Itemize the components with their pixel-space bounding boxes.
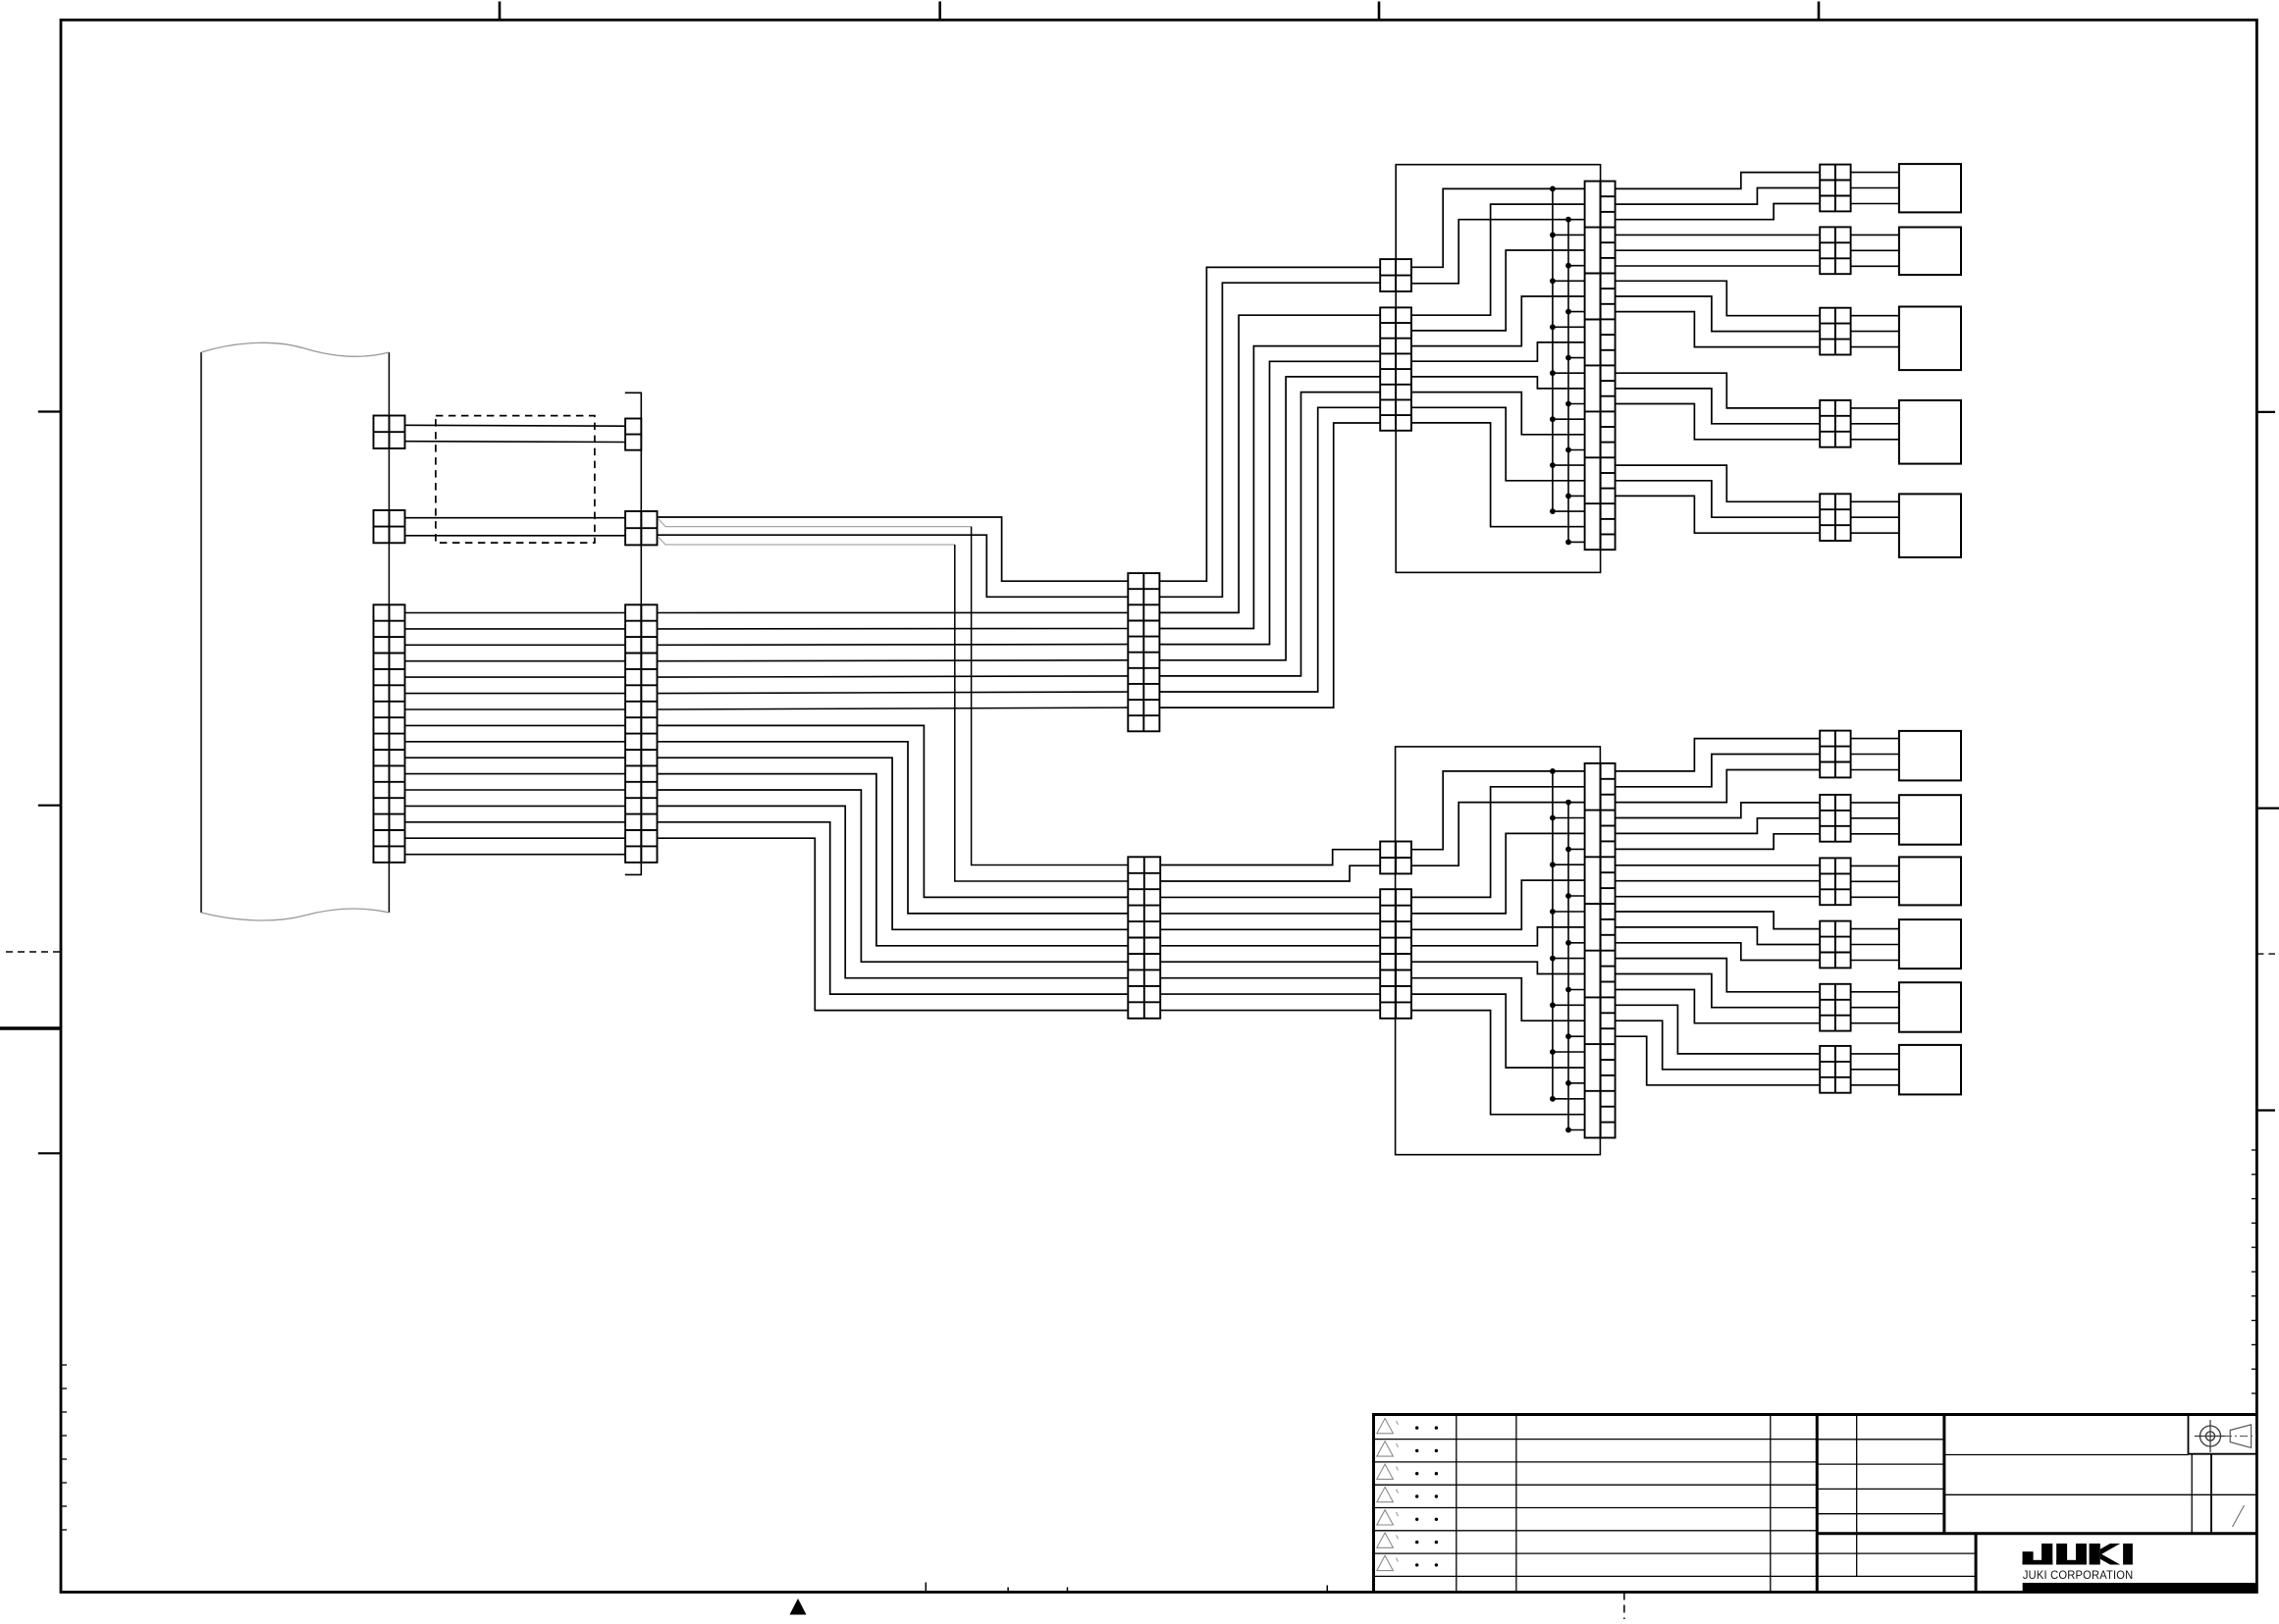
upper harness bus V2 junction box7 (1565, 494, 1571, 499)
wire lower stack row5 to block 8pin row3 (1160, 928, 1380, 930)
title row line y1482 (1944, 1454, 2189, 1456)
title block bottom black bar (2023, 1583, 2257, 1593)
wire pair-B pin2 (left segment) (405, 535, 626, 537)
wire pair-B pin2 to upper stack row2 (658, 535, 1129, 597)
upper harness bus V1 junction box8 (1550, 508, 1556, 514)
lower harness wire strip to relay R2 pin3 (1616, 834, 1821, 850)
lower harness terminal box B5 (1899, 982, 1961, 1031)
revision triangle row2 (1377, 1441, 1394, 1456)
upper harness bus V1 junction box6 (1550, 416, 1556, 422)
revision date dots row6 (1415, 1541, 1418, 1544)
title block left rule (1372, 1415, 1375, 1593)
upper harness bus V2 junction box5 (1565, 401, 1571, 407)
upper harness wire strip to relay R5 pin3 (1616, 496, 1821, 533)
lower harness terminal box B2 (1899, 795, 1961, 845)
upper harness wire 8pin row4 to box4 middle pin (1411, 342, 1585, 361)
lower harness bus V1 junction box3 (1550, 862, 1556, 867)
revision triangle row1 (1377, 1419, 1394, 1434)
left border ruler ticks (61, 1364, 67, 1366)
wire lower stack row10 to block 8pin row8 (1160, 1010, 1380, 1012)
wire bundle-6 J1 to J2 (405, 693, 626, 695)
wire bundle-15 staircase to lower stack (658, 838, 1129, 1010)
projection symbol cell left edge (2188, 1415, 2190, 1454)
lower harness wire 8pin row6 to box6 middle pin (1411, 978, 1585, 1021)
lower harness wire 8pin row3 to box3 middle pin (1411, 880, 1585, 929)
upper harness wire relay R5 pin3 to terminal box (1851, 532, 1899, 534)
revision date dots row5 (1415, 1518, 1418, 1521)
revision triangle row5 (1377, 1510, 1394, 1525)
lower harness wire strip to relay R5 pin3 (1616, 990, 1821, 1023)
upper harness terminal box B3 (1899, 307, 1961, 371)
upper harness wire 8pin row3 to box3 middle pin (1411, 296, 1585, 346)
upper harness wire relay R2 pin3 to terminal box (1851, 265, 1899, 267)
lower harness bus V2 junction box7 (1565, 1080, 1571, 1086)
upper harness wire relay R3 pin2 to terminal box (1851, 331, 1899, 333)
wire bundle-9 staircase to lower stack (658, 742, 1129, 914)
lower harness wire relay R6 pin1 to terminal box (1851, 1053, 1899, 1055)
lower harness relay connector R1 (1820, 731, 1850, 778)
upper harness bus V2 junction box1 (1565, 217, 1571, 223)
bottom border small tick x1027 (1007, 1588, 1009, 1593)
lower harness relay connector R5 (1820, 984, 1850, 1031)
title block horizontal thick rule (1817, 1532, 2256, 1535)
revision triangle row4 (1377, 1487, 1394, 1501)
lower harness wire strip to relay R1 pin2 (1616, 755, 1821, 787)
title middle section row lines (1817, 1439, 1944, 1441)
upper harness wire strip to relay R1 pin3 (1616, 204, 1821, 220)
wire lower stack row3 to block 8pin row1 (1160, 896, 1380, 898)
upper harness wire relay R2 pin2 to terminal box (1851, 249, 1899, 251)
connector J2 pin pair A (single column) (625, 419, 641, 450)
revision tick row1 (1397, 1421, 1399, 1425)
lower harness wire 8pin row7 to box7 middle pin (1411, 994, 1585, 1068)
right border ruler ticks (2252, 1149, 2257, 1151)
revision date dots row2 (1415, 1449, 1418, 1452)
wire pair-A pin1 (405, 424, 626, 427)
upper harness relay connector R5 (1820, 494, 1850, 541)
wire bundle-5 J2 to upper stack (658, 676, 1129, 677)
revision date dots row3 (1415, 1472, 1418, 1475)
upper harness wire strip to relay R2 pin1 (1616, 234, 1821, 236)
upper harness bus V2 junction box4 (1565, 355, 1571, 361)
lower harness wire 8pin row1 to box1 middle pin (1411, 787, 1585, 898)
lower harness wire relay R3 pin1 to terminal box (1851, 864, 1899, 866)
wire upper stack row1 riser to block input (1159, 267, 1380, 581)
upper harness wire relay R4 pin1 to terminal box (1851, 407, 1899, 409)
upper harness wire strip to relay R4 pin3 (1616, 404, 1821, 440)
lower harness relay connector R3 (1820, 858, 1850, 905)
bottom border small tick x943 (925, 1583, 927, 1593)
lower harness input pin pair connector (1380, 842, 1411, 874)
wire bundle-9 J1 to J2 (405, 741, 626, 743)
bottom border small tick x1087 (1067, 1588, 1069, 1593)
lower harness bus V2 junction box5 (1565, 987, 1571, 993)
upper harness wire strip to relay R2 pin2 (1616, 249, 1821, 251)
upper harness wire relay R3 pin3 to terminal box (1851, 346, 1899, 348)
wire bundle-14 J1 to J2 (405, 821, 626, 823)
title cell vertical 2233 (2191, 1455, 2193, 1534)
upper harness terminal box B1 (1899, 164, 1961, 212)
wire bundle-14 staircase to lower stack (658, 822, 1129, 994)
left PCB block wavy bottom break line (201, 909, 389, 920)
connector J1 main 16-pin (left column) (374, 604, 405, 863)
wire lower stack row9 to block 8pin row7 (1160, 993, 1380, 995)
upper harness wire 8pin row7 to box7 middle pin (1411, 407, 1585, 481)
upper harness wire strip to relay R5 pin1 (1616, 465, 1821, 501)
upper harness unit outline (1396, 165, 1600, 573)
revision table column line 3 (1770, 1415, 1772, 1593)
lower harness relay connector R6 (1820, 1046, 1850, 1093)
upper harness bus V1 junction box3 (1550, 278, 1556, 284)
right border mark y420 (2256, 411, 2275, 413)
upper harness wire relay R1 pin3 to terminal box (1851, 203, 1899, 205)
upper harness wire 8pin row1 to box1 middle pin (1411, 204, 1585, 315)
lower harness wire relay R3 pin3 to terminal box (1851, 896, 1899, 898)
lower harness bus V2 junction box8 (1565, 1127, 1571, 1133)
bottom border dashed mark (1623, 1593, 1625, 1620)
wire pair-B pin1 (left segment) (405, 517, 626, 519)
lower harness output strip left column (8 gang boxes) (1585, 763, 1601, 1138)
lower harness wire strip to relay R6 pin2 (1616, 1021, 1821, 1070)
upper harness bus V2 junction box6 (1565, 447, 1571, 453)
upper harness bus V2 (1567, 220, 1569, 543)
left border centre mark (38, 805, 61, 807)
title middle section divider (1856, 1415, 1858, 1577)
lower harness bus V2 junction box4 (1565, 940, 1571, 946)
projection symbol axis line (2224, 1436, 2256, 1438)
upper harness wire strip to relay R4 pin2 (1616, 389, 1821, 424)
lower harness bus V1 junction box2 (1550, 815, 1556, 821)
wire bundle-8 staircase to lower stack (658, 725, 1129, 897)
lower harness output strip right column (24 pins) (1601, 763, 1616, 1138)
wire bundle-8 J1 to J2 (405, 724, 626, 726)
upper harness relay connector R3 (1820, 308, 1850, 355)
upper harness wire relay R2 pin1 to terminal box (1851, 234, 1899, 236)
lower harness bus V2 junction box1 (1565, 800, 1571, 806)
wire bundle-4 J1 to J2 (405, 660, 626, 662)
upper harness wire 8pin row8 to box8 middle pin (1411, 423, 1585, 527)
upper harness wire relay R3 pin1 to terminal box (1851, 315, 1899, 317)
lower harness wire relay R5 pin1 to terminal box (1851, 991, 1899, 993)
wire upper stack row4 riser to block input (1159, 346, 1380, 629)
revision table column line 2 (1515, 1415, 1517, 1593)
lower harness wire strip to relay R3 pin3 (1616, 896, 1821, 898)
revision tick row3 (1397, 1466, 1399, 1470)
upper harness wire relay R5 pin2 to terminal box (1851, 516, 1899, 518)
upper harness bus V1 junction box5 (1550, 370, 1556, 376)
lower harness bus V1 junction box7 (1550, 1049, 1556, 1055)
upper harness input 8-pin connector (1380, 307, 1411, 430)
lower harness bus V1 junction box1 (1550, 768, 1556, 774)
sheet slash mark (2233, 1505, 2245, 1527)
right border mark y1131 (2256, 1109, 2275, 1111)
lower harness wire relay R5 pin2 to terminal box (1851, 1007, 1899, 1009)
upper harness wire strip to relay R1 pin2 (1616, 188, 1821, 205)
wire bundle-11 J1 to J2 (405, 773, 626, 775)
lower harness wire relay R2 pin1 to terminal box (1851, 802, 1899, 804)
lower harness wire relay R6 pin3 to terminal box (1851, 1084, 1899, 1086)
upper harness wire relay R1 pin1 to terminal box (1851, 172, 1899, 174)
lower harness wire strip to relay R5 pin2 (1616, 974, 1821, 1008)
wire bundle-5 J1 to J2 (405, 676, 626, 678)
lower harness bus V2 junction box6 (1565, 1033, 1571, 1039)
wire upper stack row2 riser to block input (1159, 283, 1380, 597)
lower harness relay connector R2 (1820, 795, 1850, 842)
wire bundle-16 J1 to J2 (405, 854, 626, 856)
wire bundle-4 J2 to upper stack (658, 659, 1129, 662)
revision table row lines (1374, 1439, 1818, 1441)
upper harness wire strip to relay R2 pin3 (1616, 265, 1821, 267)
lower harness relay connector R4 (1820, 921, 1850, 969)
wire bundle-1 J1 to J2 (405, 612, 626, 614)
upper harness wire relay R4 pin2 to terminal box (1851, 423, 1899, 425)
upper harness wire strip to relay R3 pin2 (1616, 296, 1821, 332)
revision tick row6 (1397, 1535, 1399, 1539)
lower harness wire strip to relay R3 pin1 (1616, 864, 1821, 866)
wire bundle-10 J1 to J2 (405, 757, 626, 759)
wire lower stack row7 to block 8pin row5 (1160, 961, 1380, 963)
lower harness wire relay R2 pin3 to terminal box (1851, 833, 1899, 835)
right border centre mark (2256, 807, 2279, 809)
revision date dots row4 (1415, 1494, 1418, 1497)
lower harness terminal box B4 (1899, 919, 1961, 969)
wire upper stack row8 riser to block input (1159, 407, 1380, 692)
right border dashed mark (2256, 953, 2275, 955)
upper harness terminal box B2 (1899, 228, 1961, 276)
upper harness wire strip to relay R4 pin1 (1616, 373, 1821, 408)
upper harness wire strip to relay R1 pin1 (1616, 173, 1821, 189)
wire upper stack row5 riser to block input (1159, 361, 1380, 644)
revision date dots row1 (1415, 1426, 1418, 1429)
upper harness bus V2 junction box3 (1565, 309, 1571, 315)
upper harness relay connector R4 (1820, 400, 1850, 447)
upper harness bus V1 junction box2 (1550, 233, 1556, 238)
upper harness relay connector R1 (1820, 165, 1850, 212)
title cell vertical 2253 (2210, 1455, 2212, 1534)
wire pair-B shield2 to lower stack row2 (grey then black) (659, 538, 955, 546)
upper harness bus V1 junction box7 (1550, 462, 1556, 468)
upper harness bus V1 (1552, 188, 1554, 511)
lower harness wire relay R1 pin1 to terminal box (1851, 738, 1899, 740)
wire lower stack row4 to block 8pin row2 (1160, 913, 1380, 915)
wire bundle-7 J1 to J2 (405, 708, 626, 710)
lower harness wire relay R5 pin3 to terminal box (1851, 1022, 1899, 1024)
lower harness wire relay R6 pin2 to terminal box (1851, 1069, 1899, 1071)
lower harness bus V1 (1552, 771, 1554, 1099)
title block divider rule 1 (1816, 1415, 1819, 1593)
revision tick row7 (1397, 1558, 1399, 1562)
upper harness wire 8pin row6 to box6 middle pin (1411, 393, 1585, 435)
title block divider rule 2 (1942, 1415, 1945, 1534)
lower harness bus V2 (1567, 803, 1569, 1130)
wire bundle-7 J2 to upper stack (658, 707, 1129, 709)
lower harness unit outline (1396, 747, 1601, 1155)
upper harness wire strip to relay R3 pin3 (1616, 312, 1821, 347)
revision tick row4 (1397, 1490, 1399, 1493)
projection symbol target circle (2200, 1426, 2221, 1446)
JUKI logo (2023, 1544, 2133, 1565)
wire pair-A pin2 (405, 441, 626, 444)
upper harness wire strip to relay R5 pin2 (1616, 481, 1821, 517)
lower harness wire strip to relay R6 pin3 (1616, 1036, 1821, 1085)
upper harness wire strip to relay R3 pin1 (1616, 281, 1821, 315)
wire pair-B shield1 to lower stack row1 (grey then black) (659, 519, 972, 527)
wire pair-B pin1 to upper stack row1 (658, 517, 1129, 581)
lower harness wire relay R4 pin1 to terminal box (1851, 928, 1899, 930)
revision tick row2 (1397, 1443, 1399, 1447)
upper harness wire 8pin row5 to box5 middle pin (1411, 377, 1585, 389)
lower harness wire 8pin row4 to box4 middle pin (1411, 927, 1585, 946)
upper harness relay connector R2 (1820, 227, 1850, 274)
lower harness wire strip to relay R2 pin1 (1616, 803, 1821, 818)
lower harness input 8-pin connector (1380, 889, 1411, 1019)
dashed enclosure box (436, 416, 595, 543)
lower harness wire relay R4 pin3 to terminal box (1851, 960, 1899, 962)
upper harness input pin pair connector (1380, 259, 1411, 291)
lower harness wire strip to relay R5 pin1 (1616, 959, 1821, 992)
top border zone tick 4 (1818, 2, 1821, 21)
top border zone tick 1 (499, 2, 502, 21)
upper harness output strip left column (8 gang boxes) (1585, 182, 1601, 550)
wire lower stack row8 to block 8pin row6 (1160, 977, 1380, 979)
revision triangle row7 (1377, 1555, 1394, 1570)
lower harness wire relay R1 pin2 to terminal box (1851, 754, 1899, 756)
wire bundle-6 J2 to upper stack (658, 692, 1129, 694)
revision date dots row7 (1415, 1563, 1418, 1566)
wire bundle-2 J1 to J2 (405, 628, 626, 630)
lower harness wire strip to relay R2 pin2 (1616, 818, 1821, 834)
lower harness bus V1 junction box5 (1550, 956, 1556, 962)
lower harness bus V1 junction box6 (1550, 1002, 1556, 1008)
wire bundle-12 J1 to J2 (405, 789, 626, 791)
left PCB block right edge (388, 352, 390, 913)
svg-text:JUKI CORPORATION: JUKI CORPORATION (2023, 1568, 2134, 1582)
lower harness wire strip to relay R4 pin3 (1616, 943, 1821, 961)
top border zone tick 2 (938, 2, 941, 21)
connector J1 pin pair B (left column) (374, 510, 405, 543)
upper harness wire relay R4 pin3 to terminal box (1851, 439, 1899, 441)
upper harness wire 8pin row2 to box2 middle pin (1411, 250, 1585, 331)
upper harness wire pin-pair2 to bus V2 row (1411, 220, 1585, 284)
left PCB block wavy top break line (201, 342, 389, 356)
lower harness wire 8pin row2 to box2 middle pin (1411, 833, 1585, 914)
relay connector stack lower (2x10) (1128, 857, 1160, 1019)
wire bundle-1 J2 to upper stack (658, 611, 1129, 613)
top border zone tick 3 (1378, 2, 1381, 21)
upper harness bus V2 junction box8 (1565, 540, 1571, 546)
left border dashed mark (6, 951, 61, 953)
lower harness wire strip to relay R1 pin1 (1616, 739, 1821, 771)
upper harness terminal box B4 (1899, 400, 1961, 464)
wire bundle-13 J1 to J2 (405, 805, 626, 807)
wire lower stack row1 jog to block pin pair 1 (1160, 850, 1380, 865)
revision tick row5 (1397, 1512, 1399, 1516)
left border thick mark (0, 1026, 61, 1029)
projection symbol cone (2230, 1425, 2251, 1448)
revision triangle row3 (1377, 1464, 1394, 1479)
lower harness wire 8pin row8 to box8 middle pin (1411, 1011, 1585, 1115)
lower harness wire strip to relay R4 pin2 (1616, 927, 1821, 945)
wire bundle-12 staircase to lower stack (658, 790, 1129, 962)
lower harness wire pin-pair1 to bus V1 row (1411, 771, 1585, 850)
lower harness terminal box B6 (1899, 1045, 1961, 1095)
lower harness wire relay R4 pin2 to terminal box (1851, 944, 1899, 946)
lower harness bus V2 junction box3 (1565, 893, 1571, 899)
projection symbol cell bottom edge (2189, 1453, 2257, 1455)
wire lower stack row2 jog to block pin pair 2 (1160, 865, 1380, 881)
lower harness wire pin-pair2 to bus V2 row (1411, 803, 1585, 866)
lower harness wire 8pin row5 to box5 middle pin (1411, 962, 1585, 973)
lower harness wire strip to relay R1 pin3 (1616, 770, 1821, 803)
lower harness wire relay R2 pin2 to terminal box (1851, 817, 1899, 819)
lower harness bus V2 junction box2 (1565, 847, 1571, 853)
title block divider rule 3 (1975, 1534, 1978, 1593)
wire bundle-15 J1 to J2 (405, 837, 626, 839)
wire upper stack row6 riser to block input (1159, 377, 1380, 660)
upper harness wire relay R5 pin1 to terminal box (1851, 500, 1899, 502)
connector J1 pin pair A (left column) (374, 416, 405, 449)
revision table column line 1 (1456, 1415, 1457, 1593)
upper harness output strip right column (24 pins) (1601, 182, 1616, 550)
lower harness terminal box B1 (1899, 731, 1961, 781)
left border mark y1175 (38, 1152, 61, 1154)
lower harness bus V1 junction box8 (1550, 1096, 1556, 1102)
upper harness bus V1 junction box1 (1550, 186, 1556, 192)
wire bundle-3 J2 to upper stack (658, 644, 1129, 647)
lower harness wire strip to relay R6 pin1 (1616, 1005, 1821, 1054)
upper harness terminal box B5 (1899, 494, 1961, 557)
title block top rule (1372, 1413, 2256, 1416)
upper harness wire pin-pair1 to bus V1 row (1411, 188, 1585, 267)
left border mark y420 (38, 410, 61, 412)
wire bundle-10 staircase to lower stack (658, 758, 1129, 929)
connector J2 pin pair B (625, 511, 657, 545)
wire upper stack row9 riser to block input (1159, 423, 1380, 707)
wire lower stack row6 to block 8pin row4 (1160, 945, 1380, 947)
wire bundle-13 staircase to lower stack (658, 806, 1129, 977)
left PCB block left edge (200, 352, 202, 913)
lower harness bus V1 junction box4 (1550, 909, 1556, 915)
lower harness wire strip to relay R3 pin2 (1616, 880, 1821, 882)
lower harness wire strip to relay R4 pin1 (1616, 912, 1821, 929)
bottom centre triangle marker (790, 1598, 807, 1615)
connector J2 main 16-pin (625, 604, 657, 863)
upper harness bus V1 junction box4 (1550, 324, 1556, 330)
relay connector stack upper (2x10) (1128, 573, 1159, 731)
upper harness wire relay R1 pin2 to terminal box (1851, 187, 1899, 189)
wire bundle-3 J1 to J2 (405, 644, 626, 646)
revision triangle row6 (1377, 1533, 1394, 1547)
wire upper stack row3 riser to block input (1159, 315, 1380, 612)
wire bundle-11 staircase to lower stack (658, 774, 1129, 946)
wire upper stack row7 riser to block input (1159, 393, 1380, 676)
wire bundle-2 J2 to upper stack (658, 628, 1129, 630)
title row line y1523 (1944, 1493, 2256, 1495)
lower harness wire relay R3 pin2 to terminal box (1851, 880, 1899, 882)
connector J2 bracket (625, 393, 642, 874)
upper harness bus V2 junction box2 (1565, 263, 1571, 269)
bottom border small tick x1352 (1326, 1586, 1328, 1593)
lower harness wire relay R1 pin3 to terminal box (1851, 769, 1899, 771)
lower harness terminal box B3 (1899, 857, 1961, 905)
